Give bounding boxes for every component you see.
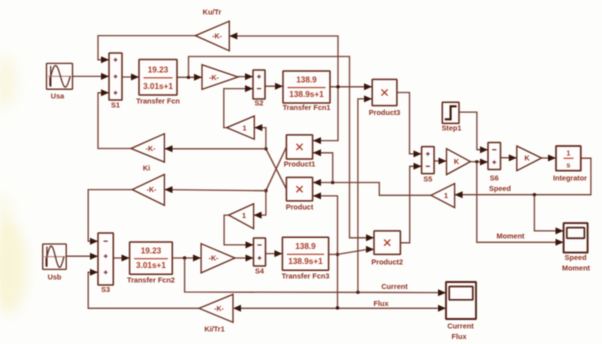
svg-text:Current: Current (381, 282, 408, 291)
svg-text:138.9s+1: 138.9s+1 (288, 257, 323, 266)
svg-text:1: 1 (243, 123, 247, 132)
svg-text:Step1: Step1 (442, 124, 462, 133)
svg-text:138.9s+1: 138.9s+1 (289, 90, 324, 99)
svg-text:S5: S5 (423, 175, 432, 184)
svg-text:s: s (566, 161, 570, 170)
svg-text:K: K (524, 154, 530, 163)
svg-text:Moment: Moment (562, 264, 591, 273)
svg-text:S3: S3 (101, 285, 110, 294)
svg-text:-K-: -K- (214, 306, 224, 313)
svg-text:S6: S6 (490, 174, 499, 183)
svg-text:Transfer Fcn: Transfer Fcn (136, 97, 180, 106)
svg-text:Product: Product (286, 203, 314, 212)
svg-text:19.23: 19.23 (148, 65, 169, 74)
svg-text:K: K (454, 157, 460, 166)
svg-text:-K-: -K- (209, 256, 219, 263)
svg-text:-K-: -K- (209, 75, 219, 82)
svg-text:Product2: Product2 (371, 258, 403, 267)
svg-text:138.9: 138.9 (296, 76, 317, 85)
svg-text:Current: Current (447, 322, 474, 331)
svg-text:19.23: 19.23 (141, 247, 162, 256)
svg-text:1: 1 (242, 211, 246, 220)
svg-text:S1: S1 (111, 101, 120, 110)
svg-text:Usa: Usa (51, 92, 65, 101)
svg-text:Flux: Flux (374, 299, 389, 308)
svg-text:Moment: Moment (497, 232, 526, 241)
svg-text:138.9: 138.9 (295, 242, 316, 251)
svg-text:S2: S2 (255, 99, 264, 108)
svg-text:Speed: Speed (565, 253, 587, 262)
svg-text:Product1: Product1 (284, 160, 316, 169)
svg-text:Usb: Usb (48, 273, 62, 282)
svg-text:S4: S4 (255, 267, 265, 276)
svg-text:Transfer Fcn2: Transfer Fcn2 (127, 276, 175, 285)
svg-text:Transfer Fcn1: Transfer Fcn1 (283, 103, 331, 112)
svg-text:Transfer Fcn3: Transfer Fcn3 (282, 272, 330, 281)
svg-text:Integrator: Integrator (553, 174, 587, 183)
svg-text:Product3: Product3 (369, 108, 401, 117)
svg-text:-K-: -K- (146, 146, 156, 153)
svg-text:3.01s+1: 3.01s+1 (136, 261, 166, 270)
svg-text:Speed: Speed (489, 184, 511, 193)
svg-text:1: 1 (444, 191, 448, 200)
svg-text:1: 1 (566, 149, 570, 158)
svg-text:Ku/Tr: Ku/Tr (203, 8, 222, 17)
svg-text:Ki/Tr1: Ki/Tr1 (204, 325, 224, 334)
svg-text:Flux: Flux (452, 332, 467, 341)
svg-text:-K-: -K- (212, 33, 222, 40)
svg-text:Ki: Ki (143, 164, 150, 173)
svg-text:-K-: -K- (147, 187, 157, 194)
svg-text:3.01s+1: 3.01s+1 (143, 82, 173, 91)
